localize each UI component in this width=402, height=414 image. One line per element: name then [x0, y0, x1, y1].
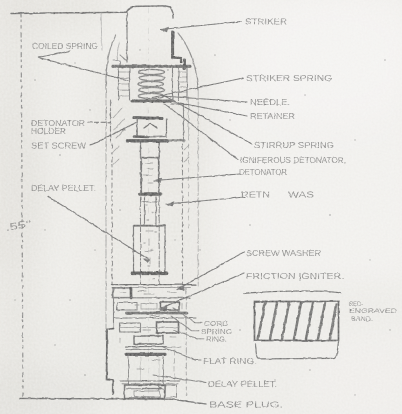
leader: needle [162, 96, 247, 102]
lower-left case wall with step [113, 288, 115, 328]
flat ring block [134, 336, 163, 344]
small marks in friction area [133, 291, 160, 369]
right body wall [197, 90, 199, 286]
body crease line [101, 13, 102, 50]
leader: ring [174, 330, 204, 339]
band box [255, 302, 339, 341]
set screw band [127, 139, 167, 142]
coiled striker spring [138, 69, 165, 98]
leader: spring ring [171, 316, 199, 331]
dots [144, 205, 157, 279]
striker stem [126, 13, 128, 62]
friction igniter layers [112, 297, 190, 299]
photocopy specks [14, 49, 390, 395]
leader: igniferous detonator [164, 104, 238, 160]
leader: striker spring [152, 78, 243, 98]
left ogive curve [106, 35, 116, 89]
needle / retainer plate [132, 100, 171, 103]
band hatching [258, 303, 336, 339]
case hatch marks upper left column [113, 145, 189, 165]
igniferous detonator cartridge [142, 157, 159, 159]
striker head flange [113, 65, 190, 68]
leader: detonator [154, 174, 240, 181]
leader: screw washer [177, 252, 244, 290]
leader: flat ring [163, 347, 201, 360]
spring housing walls [119, 68, 188, 100]
leader: stirrup spring [163, 95, 252, 144]
leader: retainer [167, 101, 247, 117]
leader: friction igniter [159, 273, 244, 309]
bottom assembly top lines [112, 284, 196, 286]
leader: coiled spring [38, 51, 128, 81]
centerline [148, 8, 150, 395]
leader: striker [161, 22, 241, 30]
wavy top line [244, 291, 341, 294]
top border line with striker bump [11, 6, 173, 18]
lower tube [128, 357, 130, 384]
delay pellet housing [134, 225, 166, 227]
left dashed border line [21, 13, 23, 396]
detonator holder inner cup [134, 118, 162, 119]
screw washer boss (left) [113, 288, 132, 298]
outer case dashed walls [111, 144, 113, 284]
lower-right case wall [185, 288, 187, 396]
speckle details [113, 145, 189, 383]
central tube walls [140, 143, 142, 284]
detonator holder hatch left [113, 108, 127, 138]
leader: cord [173, 308, 202, 323]
left body wall [105, 89, 107, 340]
inner tube lower verticals [141, 357, 160, 383]
right ogive curve [178, 33, 198, 90]
detonator holder outer walls [110, 100, 112, 142]
band lower bracket [256, 342, 339, 359]
leader: detonator holder (dashed) [88, 121, 110, 123]
leader: set screw [90, 123, 136, 146]
tube neck [141, 201, 159, 203]
leader: retaining washer [166, 197, 245, 204]
base plug area [120, 380, 180, 382]
leader: delay pellet (right) [153, 375, 206, 383]
leader: delay pellet (left) [48, 197, 149, 260]
bottom border line [20, 398, 206, 404]
cord ring layer [120, 323, 141, 332]
